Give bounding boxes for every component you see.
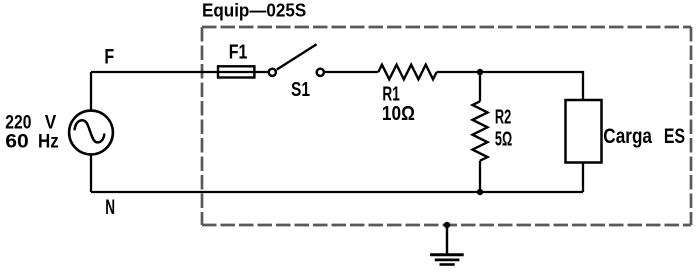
svg-text:F: F [104, 45, 114, 68]
resistor R1 zigzag [378, 65, 436, 80]
svg-text:V: V [45, 113, 57, 134]
svg-text:Hz: Hz [38, 132, 59, 153]
dashed enclosure box Equip-025S [202, 27, 691, 225]
wire R2 top stub [479, 72, 481, 101]
ground lead wire [446, 225, 448, 254]
wire bottom neutral [91, 191, 583, 193]
svg-text:S1: S1 [291, 79, 310, 101]
node junction dot on enclosure ground [444, 222, 450, 228]
wire load bottom [582, 163, 584, 193]
svg-text:ES: ES [664, 124, 685, 148]
svg-text:60: 60 [5, 132, 29, 153]
node junction dot at R2 bottom [477, 189, 483, 195]
wire R2 bottom stub [479, 161, 481, 192]
wire source vertical top [90, 72, 92, 111]
svg-text:F1: F1 [229, 42, 248, 64]
wire source vertical bottom [90, 154, 92, 192]
switch S1 blade [277, 44, 317, 69]
svg-text:R2: R2 [495, 106, 511, 128]
wire switch to R1 [325, 71, 379, 73]
wire top: source to fuse/switch [91, 72, 583, 192]
AC source V1 circle [69, 111, 113, 155]
AC source sine wave [75, 120, 105, 142]
load Carga ES box [566, 100, 602, 163]
svg-text:Carga: Carga [603, 124, 653, 148]
svg-text:Equip—025S: Equip—025S [202, 0, 306, 20]
svg-text:5Ω: 5Ω [495, 128, 512, 150]
switch S1 right contact [317, 69, 324, 76]
resistor R2 zigzag [473, 101, 488, 160]
svg-text:10Ω: 10Ω [382, 103, 415, 125]
ground symbol bars [430, 253, 464, 256]
svg-text:N: N [105, 196, 115, 219]
wire R1 to load top corner [437, 72, 583, 100]
switch S1 left contact [269, 69, 276, 76]
fuse F1 [218, 66, 254, 77]
node junction dot at R2 top [477, 69, 483, 75]
svg-text:220: 220 [5, 113, 31, 134]
